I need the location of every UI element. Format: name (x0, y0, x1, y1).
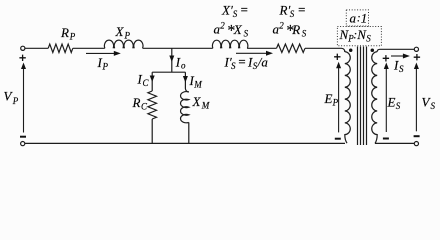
svg-text:X: X (115, 24, 125, 39)
wire: secondary bottom to right terminal (375, 142, 414, 144)
inductor X_M (181, 92, 189, 123)
svg-text:C: C (143, 78, 150, 88)
V_P arrow (23, 67, 25, 133)
svg-text:/a: /a (257, 55, 269, 70)
E_S arrow (385, 67, 387, 132)
svg-text:M: M (193, 80, 202, 90)
wire: R_P to X_P (73, 47, 105, 49)
svg-text:S: S (233, 9, 238, 19)
terminal bottom-left (21, 142, 25, 146)
svg-text:X′: X′ (221, 2, 233, 17)
E_S plus (383, 55, 389, 61)
V_S plus (414, 54, 420, 60)
svg-text:S: S (231, 61, 236, 71)
wire: bottom main (primary side) (25, 142, 345, 144)
terminal bottom-right (414, 142, 418, 146)
transformer core lines (358, 47, 367, 146)
arrow I'_S (236, 52, 267, 54)
svg-text:a: a (350, 10, 357, 25)
svg-text:S: S (396, 101, 401, 111)
terminal top-right (414, 47, 418, 51)
svg-text:R: R (132, 95, 141, 110)
svg-text:S: S (244, 28, 249, 38)
E_S minus (383, 138, 389, 140)
svg-text:S: S (290, 9, 295, 19)
svg-text:R: R (291, 22, 300, 37)
svg-text:1: 1 (361, 10, 368, 25)
svg-text:E: E (324, 91, 333, 106)
svg-text:X: X (192, 94, 202, 109)
wire: shunt top bar (152, 71, 185, 73)
svg-text:E: E (387, 95, 396, 110)
svg-text:P: P (69, 32, 76, 42)
wire: R_C branch top (151, 72, 153, 91)
arrow I_P (86, 52, 115, 54)
E_P minus (335, 138, 341, 140)
wire: X_M branch bottom (188, 122, 190, 143)
svg-text:C: C (141, 102, 148, 112)
V_P minus (20, 136, 26, 138)
svg-text:S: S (431, 101, 436, 111)
svg-text:I: I (175, 55, 181, 70)
resistor R'_S (a^2*R_S) (277, 44, 305, 52)
wire: X_P to node, node to X'_S (143, 47, 213, 49)
V_S arrow (415, 67, 417, 131)
dotted box a:1 (346, 10, 368, 26)
polarity dot secondary (371, 48, 375, 52)
svg-text:S: S (302, 28, 307, 38)
dotted box N_P:N_S (337, 27, 381, 46)
terminal top-left (21, 46, 25, 50)
svg-text:=: = (297, 2, 306, 17)
svg-text:2: 2 (220, 21, 225, 31)
inductor X_P (104, 40, 143, 48)
V_P plus (19, 55, 25, 61)
svg-text:P: P (102, 62, 109, 72)
wire: X_M branch top (185, 72, 188, 92)
svg-text:o: o (181, 61, 186, 71)
svg-text:R′: R′ (279, 2, 291, 17)
arrow I_o (169, 56, 174, 63)
svg-text:M: M (201, 101, 210, 111)
svg-text:P: P (332, 98, 339, 108)
wire: X'_S to R'_S (247, 47, 276, 49)
V_S minus (414, 135, 420, 137)
svg-text:2: 2 (279, 21, 284, 31)
svg-text:S: S (399, 64, 404, 74)
wire: I_o branch vertical from node (171, 48, 173, 72)
svg-text:P: P (12, 96, 19, 106)
transformer secondary winding (372, 52, 377, 144)
wire: R_C branch bottom (151, 119, 153, 143)
resistor R_P (48, 44, 73, 52)
arrow I_C (150, 76, 155, 83)
svg-text:R: R (60, 25, 69, 40)
polarity dot primary (349, 48, 353, 52)
transformer primary winding (345, 52, 350, 144)
resistor R_C (148, 91, 157, 119)
svg-text:X: X (233, 22, 243, 37)
wire: top main from left terminal to R_P (25, 47, 48, 49)
wire: secondary top to right terminal (377, 49, 414, 51)
E_P arrow (338, 67, 340, 133)
arrow I_M (183, 76, 188, 83)
wire: R'_S to transformer primary (305, 48, 345, 52)
E_P plus (334, 54, 340, 60)
svg-text:P: P (124, 31, 131, 41)
svg-text:S: S (366, 33, 371, 43)
svg-text:=: = (238, 54, 247, 69)
svg-text:=: = (240, 2, 249, 17)
inductor X'_S (a^2*X_S) (212, 40, 247, 48)
arrow I_S (391, 55, 405, 57)
